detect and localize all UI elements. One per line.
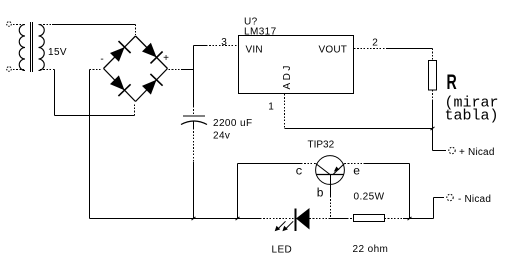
svg-text:-: -: [100, 54, 103, 65]
svg-text:c: c: [296, 165, 303, 179]
svg-text:tabla): tabla): [445, 108, 499, 125]
op-amp/regulator U? LM317 box: [239, 36, 354, 94]
LED D5: [296, 208, 310, 231]
svg-text:e: e: [353, 165, 360, 179]
svg-text:b: b: [317, 187, 324, 201]
wire (dotted pin1 ADJ lead): [284, 94, 286, 129]
wire R bottom (dotted): [432, 90, 434, 101]
svg-text:1: 1: [268, 102, 274, 113]
wire ADJ to R bottom node: [285, 128, 433, 130]
resistor R2 22 ohm: [354, 215, 385, 222]
svg-text:24v: 24v: [213, 131, 230, 142]
wire (dotted to bridge bottom corner): [134, 103, 136, 116]
transistor Q1 TIP32: [316, 156, 345, 185]
wire R bottom to +Nicad: [432, 101, 434, 151]
wire across to bridge bottom: [55, 115, 135, 117]
terminal - Nicad: [447, 194, 453, 200]
svg-text:2: 2: [372, 38, 378, 49]
diode D2 (bridge top-right): [142, 43, 163, 64]
junction tick: [236, 217, 240, 220]
bridge rectifier frame: [104, 36, 136, 69]
svg-text:TIP32: TIP32: [308, 140, 335, 151]
wire bottom rail: [90, 218, 261, 220]
diode D4 (bridge bottom-right): [142, 74, 163, 95]
wire (dotted primary bottom lead): [13, 69, 24, 71]
svg-text:ADJ: ADJ: [282, 63, 293, 89]
svg-text:R: R: [447, 70, 457, 94]
transformer T1 primary terminal bottom: [7, 67, 12, 72]
wire collector down leg: [237, 164, 239, 219]
svg-text:- Nicad: - Nicad: [458, 194, 491, 205]
capacitor C1 top lead (dotted): [193, 106, 195, 115]
wire LED to base node: [310, 218, 331, 220]
diode D1 (bridge top-left): [110, 41, 131, 62]
wire down from secondary: [54, 70, 56, 116]
svg-text:LED: LED: [272, 245, 293, 256]
resistor R: [429, 61, 437, 91]
node VIN junction: [193, 46, 195, 107]
capacitor C1 bottom lead: [193, 122, 195, 129]
wire (dotted primary top lead): [13, 24, 24, 26]
junction tick: [408, 217, 412, 220]
transformer T1 primary terminal top: [7, 22, 12, 27]
wire (dotted bridge minus lead): [90, 69, 103, 71]
svg-text:0.25W: 0.25W: [354, 192, 385, 203]
wire plus to node: [181, 69, 194, 71]
svg-text:22 ohm: 22 ohm: [353, 244, 389, 255]
wire up to pin3 level: [194, 45, 207, 47]
LED arrows: [275, 221, 294, 231]
diode D3 (bridge bottom-left): [110, 75, 131, 96]
transformer T1 core: [30, 22, 32, 72]
wire (secondary top lead, dotted): [40, 24, 52, 26]
wire (dotted bridge plus lead): [169, 69, 182, 71]
svg-text:VIN: VIN: [246, 45, 263, 56]
transformer T1 primary winding: [19, 25, 25, 71]
svg-text:VOUT: VOUT: [319, 45, 348, 56]
wire R2 to emitter node: [385, 218, 404, 220]
svg-text:LM317: LM317: [244, 27, 277, 38]
wire (dotted pin3 lead): [206, 45, 238, 47]
terminal + Nicad: [449, 147, 455, 153]
wire negative rail vertical: [89, 70, 91, 219]
transformer T1 secondary winding: [39, 25, 45, 71]
wire emitter: [345, 163, 366, 165]
wire emitter down leg: [409, 164, 411, 219]
capacitor C1: [181, 116, 207, 125]
junction tick: [431, 127, 435, 130]
wire base: [330, 175, 332, 197]
wire pin2 to R: [387, 48, 433, 50]
svg-text:+ Nicad: + Nicad: [459, 147, 495, 158]
wire collector: [238, 163, 302, 165]
svg-text:+: +: [163, 53, 169, 64]
wire up to -Nicad: [433, 198, 435, 219]
svg-text:3: 3: [221, 37, 227, 48]
wire top rail to bridge: [52, 24, 136, 26]
wire secondary bottom lead: [40, 69, 55, 71]
junction tick: [192, 217, 196, 220]
svg-text:15V: 15V: [48, 47, 67, 58]
wire (dotted pin2 lead): [354, 48, 387, 50]
svg-text:2200 uF: 2200 uF: [213, 118, 253, 129]
